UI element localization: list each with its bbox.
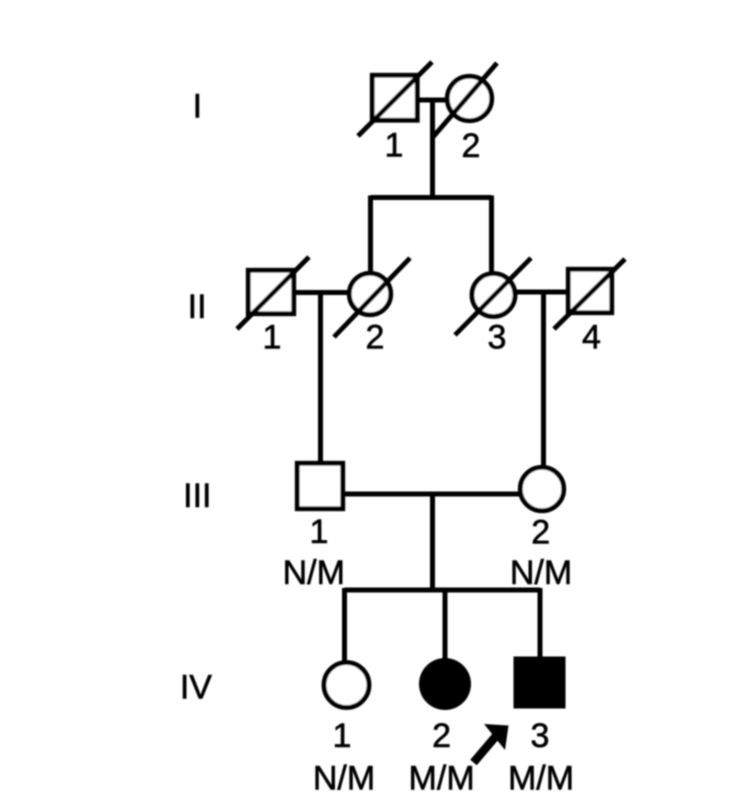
wire: sibship line generation IV [345, 588, 541, 593]
svg-text:1: 1 [333, 717, 352, 755]
individual I-2: deceased female circle [447, 76, 492, 121]
individual IV-3: affected male filled square (proband) [514, 657, 566, 709]
svg-text:II: II [188, 288, 207, 326]
svg-text:1: 1 [263, 319, 282, 357]
wire: descent to IV-3 [538, 588, 543, 658]
svg-text:3: 3 [531, 717, 550, 755]
proband arrow head [484, 724, 509, 750]
slash II-2 [334, 258, 410, 337]
individual II-3: deceased female circle [472, 274, 515, 317]
proband arrow shaft [474, 736, 497, 763]
wire: sibship line generation II [371, 195, 492, 200]
svg-text:M/M: M/M [409, 760, 475, 798]
individual IV-2: affected female filled circle [419, 658, 471, 710]
wire: drop from couple III to sibship line [430, 494, 435, 590]
wire: descent to IV-1 [342, 588, 347, 664]
individual III-1: unaffected male square [297, 463, 343, 509]
svg-text:1: 1 [310, 513, 329, 551]
svg-text:IV: IV [180, 669, 212, 707]
svg-text:N/M: N/M [510, 554, 572, 592]
slash I-1 [358, 62, 432, 136]
svg-text:2: 2 [366, 319, 385, 357]
svg-text:2: 2 [432, 717, 451, 755]
individual IV-1: unaffected female circle [324, 663, 369, 708]
wire: descent to IV-2 [443, 588, 448, 661]
wire: descent to II-3 [489, 196, 494, 277]
slash II-4 [554, 259, 625, 329]
individual III-2: unaffected female circle [520, 467, 564, 511]
svg-text:I: I [193, 88, 202, 126]
svg-text:2: 2 [462, 127, 481, 165]
individual II-2: deceased female circle [349, 273, 391, 315]
svg-text:3: 3 [488, 319, 507, 357]
individual I-1: deceased male square [372, 75, 417, 120]
slash I-2 [433, 63, 497, 137]
slash II-1 [237, 257, 309, 329]
wire: couple line I-1 to I-2 [417, 98, 448, 103]
wire: descent to II-2 [368, 196, 373, 276]
wire: couple line II-3 to II-4 [513, 290, 567, 295]
svg-text:M/M: M/M [508, 760, 574, 798]
svg-text:2: 2 [531, 514, 550, 552]
wire: couple line III-1 to III-2 [344, 492, 519, 497]
svg-text:N/M: N/M [313, 760, 375, 798]
svg-text:4: 4 [582, 319, 601, 357]
svg-text:N/M: N/M [283, 554, 345, 592]
wire: couple line II-1 to II-2 [294, 290, 351, 295]
wire: drop from couple I to sibship line [430, 100, 435, 198]
wire: drop from couple II-1/II-2 to III-1 [318, 293, 323, 464]
svg-text:III: III [183, 477, 211, 515]
slash II-3 [455, 258, 531, 335]
wire: drop from couple II-3/II-4 to III-2 [541, 292, 546, 468]
svg-text:1: 1 [385, 127, 404, 165]
individual II-4: deceased male square [568, 269, 612, 313]
individual II-1: deceased male square [248, 270, 294, 314]
